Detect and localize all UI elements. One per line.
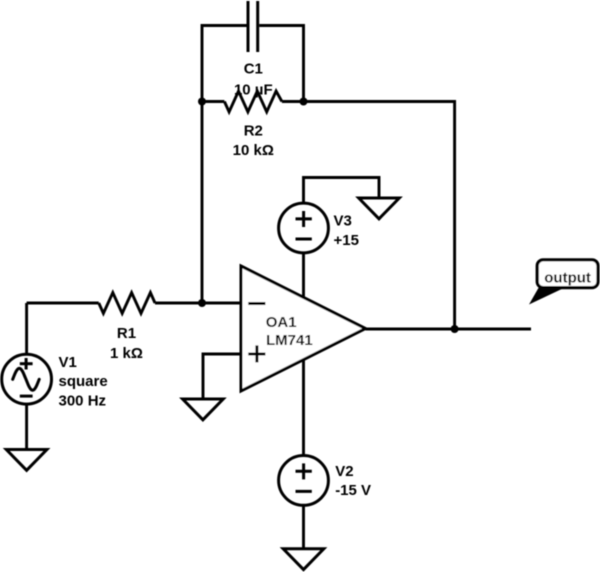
svg-text:-15 V: -15 V xyxy=(335,482,371,499)
svg-text:C1: C1 xyxy=(244,60,263,77)
svg-text:1 kΩ: 1 kΩ xyxy=(110,345,143,362)
svg-text:square: square xyxy=(59,373,108,390)
svg-text:R1: R1 xyxy=(117,325,136,342)
svg-text:OA1: OA1 xyxy=(266,314,297,331)
svg-text:V1: V1 xyxy=(59,354,77,371)
svg-text:R2: R2 xyxy=(244,123,263,140)
svg-text:V3: V3 xyxy=(334,212,352,229)
svg-text:output: output xyxy=(544,269,591,286)
svg-text:300 Hz: 300 Hz xyxy=(59,392,107,409)
svg-text:10 µF: 10 µF xyxy=(234,81,273,98)
svg-text:V2: V2 xyxy=(335,463,353,480)
svg-text:+15: +15 xyxy=(334,232,359,249)
svg-text:10 kΩ: 10 kΩ xyxy=(233,142,274,159)
svg-text:LM741: LM741 xyxy=(266,332,313,349)
